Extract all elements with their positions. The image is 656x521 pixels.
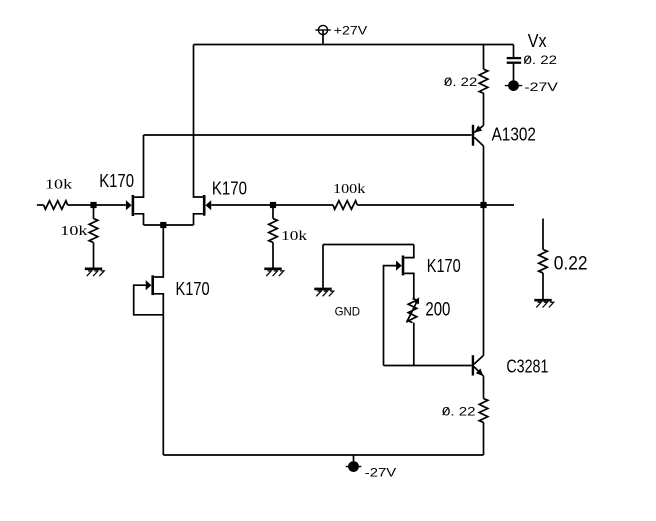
wire Q5 emitter to R6 xyxy=(483,376,485,398)
transistor Q4 emitter with arrow xyxy=(474,125,483,132)
wire rail to resistor R3 xyxy=(483,45,485,70)
wire R1 to Q1 gate xyxy=(68,204,126,206)
wire R5 to output node xyxy=(357,204,483,206)
wire Q1 drain to Q4 base xyxy=(144,134,472,136)
wire R4 to ground xyxy=(272,242,274,267)
JFET Q1 source lead xyxy=(134,214,143,225)
capacitor C1 0.22 xyxy=(507,58,521,63)
resistor R5 100k feedback xyxy=(333,201,357,210)
wire bias drain drop xyxy=(404,245,414,258)
wire main vertical Q4 collector to Q5 collector xyxy=(483,146,485,355)
wire Q2 gate to node xyxy=(211,204,333,206)
svg-text:10k: 10k xyxy=(45,178,72,193)
svg-text:GND: GND xyxy=(335,304,361,318)
JFET Q1 gate arrow xyxy=(126,200,132,210)
power symbol -27V bottom xyxy=(346,461,362,472)
JFET Q6 gate arrow xyxy=(396,261,402,271)
wire rail left drop to Q2 drain xyxy=(194,45,204,198)
node input junction xyxy=(90,202,96,208)
svg-text:K170: K170 xyxy=(176,279,210,299)
svg-text:0. 22: 0. 22 xyxy=(444,75,478,89)
JFET Q2 K170 channel bar xyxy=(203,195,206,216)
JFET Q1 drain lead xyxy=(134,135,143,197)
resistor R1 10k input series xyxy=(44,201,68,210)
svg-text:0.22: 0.22 xyxy=(554,253,588,274)
JFET Q2 source lead xyxy=(194,214,203,225)
svg-text:0. 22: 0. 22 xyxy=(524,53,558,67)
svg-text:K170: K170 xyxy=(212,178,247,198)
ground input side xyxy=(85,267,102,270)
wire R2 to ground xyxy=(93,242,95,267)
wire R6 to bottom rail xyxy=(483,422,485,455)
resistor VR1 200 variable xyxy=(408,298,417,322)
JFET Q3 gate arrow xyxy=(146,280,152,290)
resistor R3 0.22 collector load xyxy=(479,69,488,93)
wire top +27V rail xyxy=(194,44,514,46)
transistor Q5 C3281 base bar xyxy=(472,355,474,375)
svg-text:200: 200 xyxy=(425,299,450,320)
wire junction to R2 xyxy=(93,205,95,219)
JFET Q3 K170 channel bar xyxy=(151,275,154,295)
resistor R4 10k to ground xyxy=(269,219,278,243)
resistor R2 10k to ground xyxy=(89,219,98,243)
JFET Q2 gate arrow xyxy=(206,200,212,210)
svg-text:C3281: C3281 xyxy=(506,357,548,377)
node output junction xyxy=(480,202,486,208)
ground sense resistor xyxy=(534,299,551,302)
ground feedback side xyxy=(264,267,281,270)
power symbol +27V xyxy=(315,25,330,34)
svg-text:A1302: A1302 xyxy=(492,124,536,144)
power symbol -27V top xyxy=(505,80,522,91)
svg-text:0. 22: 0. 22 xyxy=(442,405,476,419)
svg-text:100k: 100k xyxy=(333,182,365,197)
resistor VR1 arrow xyxy=(407,297,420,322)
JFET Q6 source lead xyxy=(404,273,414,298)
svg-text:10k: 10k xyxy=(60,224,87,239)
resistor R7 0.22 sense xyxy=(539,250,548,273)
svg-text:-27V: -27V xyxy=(365,465,396,479)
wire output stub xyxy=(484,204,515,206)
wire junction to R4 xyxy=(272,205,274,219)
svg-text:K170: K170 xyxy=(427,256,461,276)
svg-text:-27V: -27V xyxy=(524,80,558,94)
wire bias bottom to Q5 base xyxy=(384,365,472,367)
wire bottom -27V rail xyxy=(163,454,483,456)
wire rail corner to capacitor C1 xyxy=(513,45,515,58)
svg-text:Vx: Vx xyxy=(528,31,547,51)
ground bias GND xyxy=(314,288,331,291)
JFET Q6 K170 channel bar xyxy=(402,256,405,276)
JFET Q3 source lead xyxy=(154,294,163,455)
wire common source xyxy=(144,224,194,226)
JFET Q6 gate wire xyxy=(384,266,397,366)
transistor Q5 collector xyxy=(474,355,484,364)
wire common source to Q3 drain xyxy=(154,225,163,277)
wire -27V bottom stub xyxy=(353,455,355,461)
wire VR1 to bias bottom xyxy=(413,323,415,366)
wire R3 to Q4 emitter xyxy=(483,93,485,125)
transistor Q5 emitter with arrow xyxy=(474,367,484,377)
wire +27V stub xyxy=(322,30,324,45)
node feedback junction xyxy=(270,202,276,208)
wire R7 top lead xyxy=(542,219,544,250)
wire bias top xyxy=(323,244,414,246)
node common source junction xyxy=(160,222,166,228)
svg-text:K170: K170 xyxy=(99,171,134,191)
svg-text:+27V: +27V xyxy=(334,24,368,38)
transistor Q4 collector xyxy=(474,137,483,146)
transistor Q4 A1302 base bar xyxy=(472,125,474,146)
wire R7 to ground xyxy=(542,273,544,299)
JFET Q3 gate loop xyxy=(134,285,164,315)
svg-text:10k: 10k xyxy=(281,229,307,244)
JFET Q1 K170 channel bar xyxy=(132,195,135,216)
wire capacitor to -27V dot xyxy=(513,64,515,81)
resistor R6 0.22 emitter xyxy=(479,399,488,423)
wire bias to ground xyxy=(322,245,324,288)
wire input lead xyxy=(37,204,44,206)
